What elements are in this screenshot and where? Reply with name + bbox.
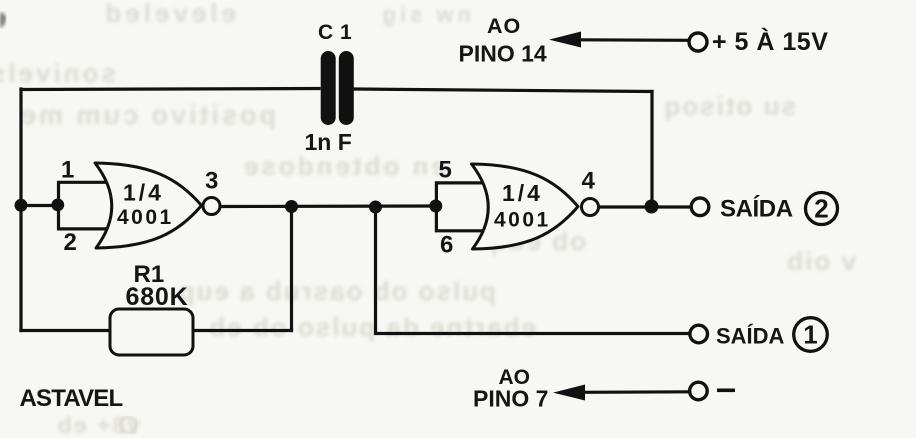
svg-text:1/4: 1/4 (502, 180, 543, 206)
svg-text:4: 4 (582, 167, 596, 194)
svg-text:4001: 4001 (494, 209, 551, 232)
svg-text:en obtendose: en obtendose (241, 151, 446, 181)
svg-text:SAÍDA: SAÍDA (720, 195, 793, 223)
svg-text:sonivelse: sonivelse (0, 58, 116, 88)
svg-text:2: 2 (64, 229, 77, 256)
svg-text:su otisoq: su otisoq (662, 91, 796, 121)
svg-text:AO: AO (487, 14, 521, 38)
svg-text:6: 6 (440, 232, 453, 259)
svg-text:v oib: v oib (785, 246, 856, 276)
svg-text:C 1: C 1 (318, 21, 352, 44)
svg-text:1: 1 (803, 320, 817, 350)
svg-text:4001: 4001 (117, 206, 174, 229)
svg-text:SAÍDA: SAÍDA (716, 324, 785, 349)
svg-text:ASTAVEL: ASTAVEL (20, 385, 123, 412)
svg-text:nw sig: nw sig (379, 2, 471, 27)
svg-text:eleveled: eleveled (101, 0, 236, 28)
svg-text:pulso ob oasrub a eup: pulso ob oasrub a eup (177, 276, 496, 306)
svg-text:ebartne da pulso ob eb: ebartne da pulso ob eb (207, 312, 536, 342)
svg-text:+ 5 À 15V: + 5 À 15V (712, 27, 828, 56)
svg-text:PINO 14: PINO 14 (459, 41, 547, 67)
svg-text:PINO 7: PINO 7 (473, 386, 548, 412)
svg-text:5: 5 (439, 157, 452, 184)
svg-text:3: 3 (205, 168, 218, 195)
svg-text:1: 1 (61, 157, 74, 184)
svg-text:positivo cum me: positivo cum me (18, 100, 276, 130)
svg-text:1n F: 1n F (305, 129, 352, 155)
svg-text:1/4: 1/4 (123, 180, 164, 206)
svg-text:2: 2 (814, 194, 828, 224)
svg-text:680K: 680K (126, 283, 189, 311)
